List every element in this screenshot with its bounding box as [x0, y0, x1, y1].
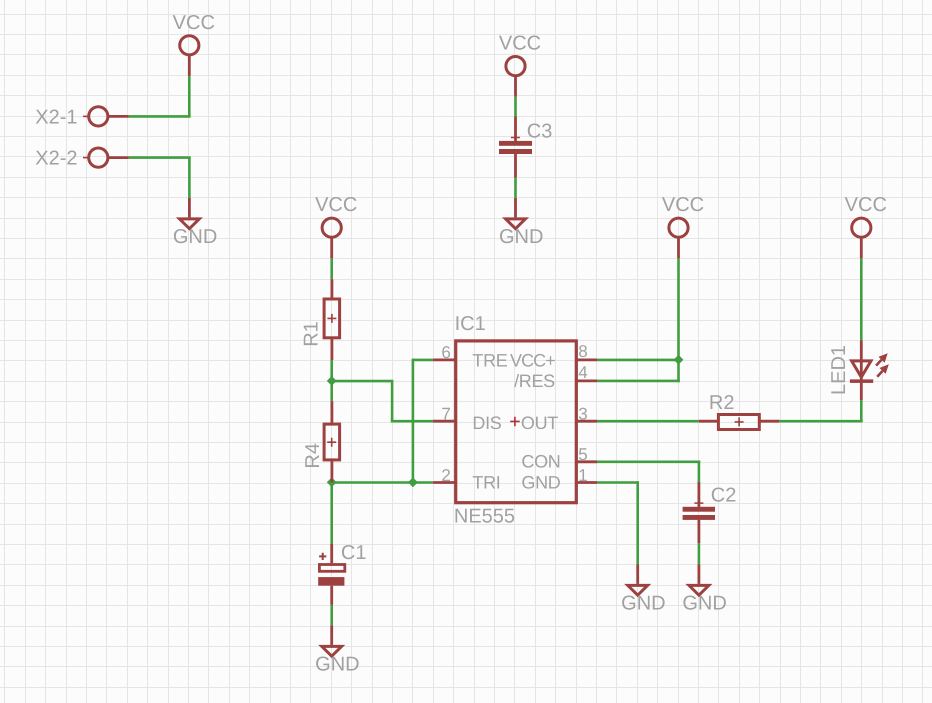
IC1 pin 8 stub	[576, 358, 597, 361]
svg-text:2: 2	[441, 466, 450, 485]
wire pin 1 down to GND	[636, 481, 639, 564]
supply VCC symbol above C3	[506, 57, 525, 97]
resistor R2	[699, 415, 779, 430]
wire node B to C1 top	[330, 483, 333, 545]
wire VCC to X2-1 vertical	[188, 76, 191, 117]
svg-text:GND: GND	[682, 592, 726, 614]
svg-text:DIS: DIS	[472, 413, 501, 433]
LED LED1	[850, 340, 873, 400]
wire C2 bottom to GND	[698, 543, 701, 564]
wire pin 5 horizontal	[597, 460, 700, 463]
IC1 origin cross	[510, 417, 520, 427]
wire node D to pin4 row	[677, 360, 680, 382]
svg-text:4: 4	[578, 363, 587, 382]
wire VCC to C3 top	[514, 97, 517, 117]
wire X2-1 to corner horizontal	[129, 115, 191, 118]
wire X2-2 horizontal	[129, 156, 191, 159]
svg-text:7: 7	[441, 405, 450, 424]
wire pin 8 to node D	[597, 359, 679, 362]
IC1 pin 4 stub	[576, 379, 597, 382]
svg-text:GND: GND	[315, 653, 359, 675]
wire to pin 7	[391, 420, 433, 423]
svg-text:X2-2: X2-2	[35, 148, 77, 170]
IC1 pin 6 stub	[433, 358, 456, 361]
LED1 emission arrow lower	[877, 364, 889, 376]
resistor R4	[324, 401, 340, 482]
svg-text:GND: GND	[173, 226, 217, 248]
svg-text:VCC: VCC	[315, 194, 357, 216]
wire VCC to R1 top	[330, 258, 333, 279]
wire X2-2 to GND vertical	[188, 158, 191, 198]
svg-text:GND: GND	[499, 226, 543, 248]
svg-text:TRI: TRI	[472, 473, 500, 493]
ground symbol below C3	[506, 198, 526, 229]
ground symbol below pin 1	[628, 564, 648, 595]
junction node C	[408, 477, 418, 487]
junction node B	[327, 477, 337, 487]
ground symbol below C1	[322, 625, 342, 656]
capacitor C1 polarized	[318, 544, 345, 605]
svg-text:LED1: LED1	[828, 345, 850, 395]
connector pin X2-2	[83, 148, 129, 167]
supply VCC symbol above IC	[669, 218, 688, 258]
wire node A to R4 top	[330, 381, 333, 401]
wire VCC to LED top	[860, 258, 863, 340]
ground symbol below C2	[689, 564, 709, 595]
wire pin 1 horizontal	[597, 481, 639, 484]
wire C1 bottom to GND	[330, 605, 333, 626]
supply VCC symbol top-left	[180, 36, 199, 76]
IC U1 IC1 NE555 body	[456, 341, 577, 503]
wire node B to pin 2	[332, 481, 433, 484]
svg-text:R2: R2	[709, 392, 735, 414]
wire pin 4 horizontal	[597, 380, 680, 383]
svg-text:NE555: NE555	[454, 505, 515, 527]
svg-text:VCC: VCC	[173, 12, 215, 34]
wire R2 right to LED column	[779, 420, 862, 423]
wire pin 6 stub horizontal	[413, 359, 433, 362]
wire vertical to pin7 row	[391, 380, 394, 421]
svg-text:R4: R4	[302, 443, 324, 469]
IC1 pin 2 stub	[433, 481, 456, 484]
svg-text:/RES: /RES	[514, 371, 555, 391]
wire C3 bottom to GND	[514, 178, 517, 198]
IC1 pin 1 stub	[576, 481, 597, 484]
junction node D	[674, 355, 684, 365]
wire pin 5 down to C2	[698, 461, 701, 483]
svg-text:8: 8	[578, 342, 587, 361]
ground symbol below X2	[180, 198, 200, 229]
svg-text:1: 1	[578, 466, 587, 485]
resistor R1	[324, 279, 340, 360]
svg-text:3: 3	[578, 405, 587, 424]
wire LED bottom vertical	[860, 400, 863, 422]
wire pin 6 to node C vertical	[412, 359, 415, 483]
svg-text:GND: GND	[621, 592, 665, 614]
svg-text:C2: C2	[711, 484, 737, 506]
capacitor C3	[499, 116, 532, 177]
wire R1 bottom to node A	[330, 360, 333, 381]
LED1 emission arrow upper	[876, 353, 888, 365]
svg-text:IC1: IC1	[455, 313, 486, 335]
svg-text:CON: CON	[521, 451, 560, 471]
supply VCC symbol above R1	[322, 218, 341, 258]
svg-text:GND: GND	[521, 473, 560, 493]
IC1 pin 3 stub	[576, 420, 597, 423]
svg-text:R1: R1	[301, 321, 323, 347]
svg-text:TRE: TRE	[472, 350, 507, 370]
svg-text:VCC: VCC	[662, 194, 704, 216]
junction node A	[327, 376, 337, 386]
svg-text:VCC: VCC	[499, 33, 541, 55]
svg-text:6: 6	[441, 343, 450, 362]
IC1 pin 7 stub	[433, 420, 456, 423]
supply VCC symbol above LED1	[852, 218, 871, 258]
svg-text:VCC+: VCC+	[510, 350, 555, 370]
svg-text:5: 5	[578, 445, 587, 464]
IC1 pin 5 stub	[576, 460, 597, 463]
svg-text:VCC: VCC	[845, 194, 887, 216]
wire pin 3 to R2 left	[597, 420, 699, 423]
svg-text:X2-1: X2-1	[35, 106, 77, 128]
capacitor C2	[683, 482, 715, 543]
svg-text:C1: C1	[341, 542, 367, 564]
svg-text:C3: C3	[527, 121, 553, 143]
wire node A horizontal	[332, 380, 392, 383]
svg-text:OUT: OUT	[521, 413, 558, 433]
connector pin X2-1	[83, 107, 129, 126]
wire VCC to node D vertical	[677, 258, 680, 360]
